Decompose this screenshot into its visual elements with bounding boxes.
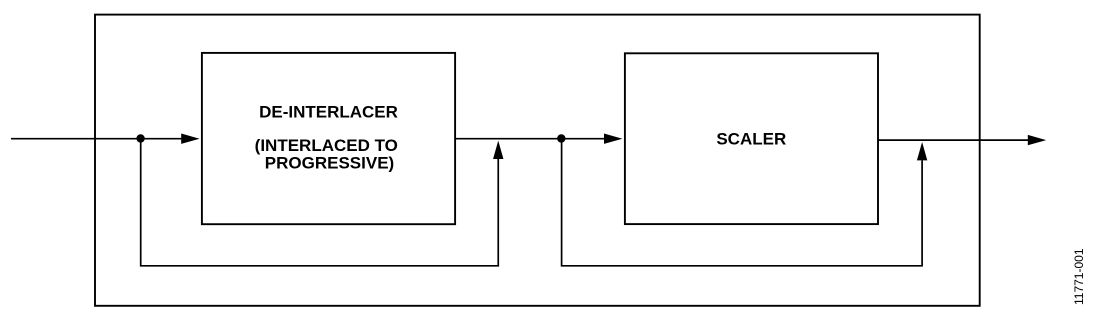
arrowhead into DE-INTERLACER: [181, 134, 199, 144]
wire DE-INTERLACER output to SCALER input: [455, 138, 605, 140]
svg-text:11771-001: 11771-001: [1072, 248, 1086, 305]
block SCALER: [625, 53, 878, 224]
arrowhead output: [1028, 135, 1046, 145]
wire bypass 2 (around scaler): [562, 139, 923, 266]
junction dot A: [136, 134, 144, 142]
svg-text:(INTERLACED TO: (INTERLACED TO: [255, 136, 398, 155]
wire bypass 1 (around de-interlacer): [141, 139, 499, 266]
svg-text:SCALER: SCALER: [716, 129, 786, 148]
svg-text:PROGRESSIVE): PROGRESSIVE): [265, 153, 394, 172]
arrowhead into SCALER: [604, 134, 622, 144]
arrowhead bypass 1 up: [493, 141, 503, 159]
wire SCALER output line: [878, 139, 1028, 141]
svg-text:DE-INTERLACER: DE-INTERLACER: [259, 103, 398, 122]
outer boundary box: [95, 15, 980, 306]
block DE-INTERLACER: [202, 53, 455, 224]
arrowhead bypass 2 up: [917, 142, 927, 160]
junction dot B: [557, 134, 565, 142]
wire input line: [11, 138, 182, 140]
